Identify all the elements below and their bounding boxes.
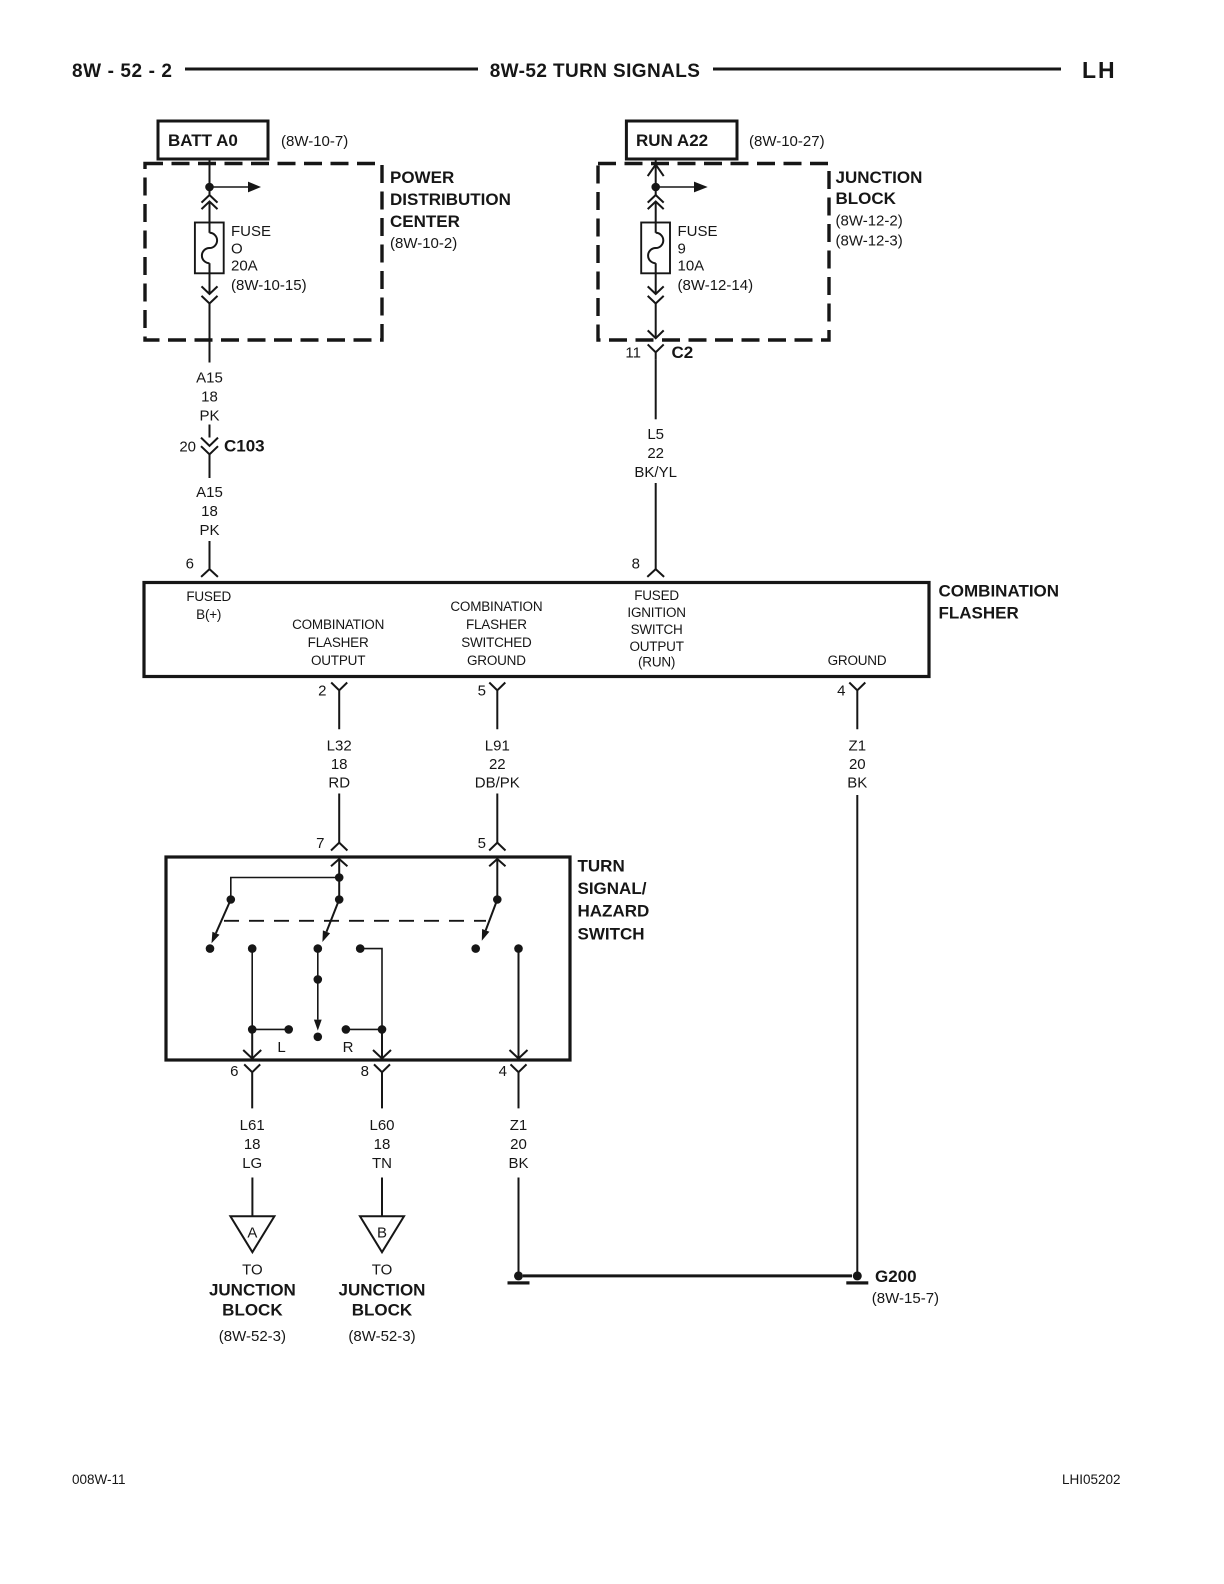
- svg-text:L61: L61: [240, 1117, 265, 1134]
- wire label Z1 20 BK (flasher ground): [847, 738, 867, 792]
- svg-text:BK: BK: [847, 775, 867, 792]
- svg-text:8W - 52 - 2: 8W - 52 - 2: [72, 61, 173, 82]
- svg-text:LHI05202: LHI05202: [1062, 1472, 1121, 1487]
- arrow down at JB border exit: [648, 330, 664, 338]
- svg-text:SWITCHED: SWITCHED: [461, 635, 532, 650]
- svg-text:A15: A15: [196, 484, 223, 501]
- svg-text:JUNCTION: JUNCTION: [339, 1281, 426, 1300]
- svg-text:PK: PK: [199, 522, 219, 539]
- svg-text:LH: LH: [1082, 57, 1117, 83]
- svg-text:JUNCTION: JUNCTION: [836, 168, 923, 187]
- svg-text:FLASHER: FLASHER: [939, 604, 1019, 623]
- svg-text:Z1: Z1: [510, 1117, 528, 1134]
- wire to JB border: [655, 304, 657, 339]
- svg-text:BATT A0: BATT A0: [168, 131, 238, 150]
- svg-text:4: 4: [837, 683, 845, 700]
- wire to off-page connector A: [251, 1178, 253, 1217]
- power distribution center dashed box: [145, 164, 382, 341]
- svg-text:8: 8: [361, 1063, 369, 1080]
- feed box RUN A22: [626, 121, 737, 159]
- svg-text:(8W-12-3): (8W-12-3): [836, 233, 903, 250]
- label TO JUNCTION BLOCK (8W-52-3) right: [339, 1262, 426, 1346]
- svg-text:A: A: [247, 1225, 257, 1242]
- svg-text:18: 18: [331, 756, 348, 773]
- contact dot row: left open contact: [206, 944, 215, 953]
- header rule right: [713, 68, 1061, 71]
- svg-text:OUTPUT: OUTPUT: [629, 639, 683, 654]
- svg-text:22: 22: [647, 445, 664, 462]
- wire RUN A22 down into JB: [655, 159, 657, 195]
- svg-text:10A: 10A: [678, 258, 705, 275]
- svg-text:(8W-10-27): (8W-10-27): [749, 133, 825, 150]
- svg-text:(RUN): (RUN): [638, 655, 675, 670]
- svg-text:L: L: [277, 1039, 285, 1056]
- wire label L32 18 RD: [327, 738, 352, 792]
- label JUNCTION BLOCK: [836, 168, 923, 250]
- contact dot: ground contact: [514, 944, 523, 953]
- svg-text:BK: BK: [508, 1155, 528, 1172]
- left pivot dot: [227, 895, 236, 904]
- wire pin 7 to node: [338, 859, 340, 878]
- wire label A15 18 PK (lower): [196, 484, 223, 539]
- svg-text:TO: TO: [372, 1262, 393, 1279]
- svg-text:FUSE: FUSE: [678, 223, 718, 240]
- L jumper end dot: [284, 1025, 293, 1034]
- connector C2 pin 11: [625, 343, 693, 362]
- svg-text:8: 8: [632, 556, 640, 573]
- contact dot: left turn contact: [248, 944, 257, 953]
- wire to off-page connector B: [381, 1178, 383, 1217]
- flasher terminal label FUSED B(+): [186, 589, 231, 622]
- svg-text:PK: PK: [199, 408, 219, 425]
- fuse label FUSE 9 10A (8W-12-14): [678, 223, 754, 294]
- contact dot: right turn contact: [356, 944, 365, 953]
- hazard junction dot: [314, 975, 323, 984]
- wire node to middle pivot: [338, 878, 340, 900]
- svg-text:5: 5: [478, 835, 486, 852]
- switch pin 5 connector: [478, 835, 506, 852]
- svg-text:(8W-10-2): (8W-10-2): [390, 235, 457, 252]
- connector C103 pin 20: [179, 437, 264, 456]
- wire label A15 18 PK (upper): [196, 370, 223, 425]
- svg-text:C2: C2: [672, 343, 694, 362]
- svg-text:RD: RD: [328, 775, 350, 792]
- wire flasher pin5 to switch pin5: [496, 794, 498, 843]
- svg-text:BLOCK: BLOCK: [836, 189, 897, 208]
- off-page connector A: [230, 1216, 274, 1252]
- svg-text:IGNITION: IGNITION: [627, 605, 685, 620]
- header rule left: [185, 68, 478, 71]
- off-page connector B: [360, 1216, 404, 1252]
- svg-text:22: 22: [489, 756, 506, 773]
- ground splice dot (switch side): [514, 1271, 523, 1280]
- wire label L5 22 BK/YL: [634, 426, 677, 481]
- svg-text:A15: A15: [196, 370, 223, 387]
- wire flasher pin4 to ground G200: [856, 795, 858, 1272]
- svg-text:C103: C103: [224, 437, 265, 456]
- svg-text:(8W-52-3): (8W-52-3): [219, 1328, 286, 1345]
- svg-text:CENTER: CENTER: [390, 212, 460, 231]
- svg-text:B(+): B(+): [196, 607, 221, 622]
- svg-text:11: 11: [625, 345, 641, 362]
- wire above C103: [209, 425, 211, 438]
- wire switch ground to G200: [518, 1178, 520, 1273]
- connector double chevron above fuse (PDC): [202, 195, 218, 209]
- svg-text:BK/YL: BK/YL: [634, 464, 677, 481]
- wire ground contact to pin 4 with arrow: [510, 949, 528, 1059]
- junction dot L output: [248, 1025, 257, 1034]
- wire R jumper: [346, 1028, 382, 1030]
- wire label L91 22 DB/PK: [475, 738, 520, 792]
- svg-text:GROUND: GROUND: [828, 653, 887, 668]
- svg-text:B: B: [377, 1225, 387, 1242]
- label POWER DISTRIBUTION CENTER: [390, 168, 511, 252]
- pin 6 connector at combination flasher: [186, 556, 218, 577]
- connector double chevron below fuse (JB): [648, 286, 664, 303]
- switch pin 6 connector: [230, 1063, 260, 1108]
- hazard target contact dot: [314, 1033, 323, 1042]
- wire left contact down: [251, 949, 253, 1030]
- flasher pin 2 connector: [318, 683, 347, 730]
- svg-text:5: 5: [478, 683, 486, 700]
- fuse 9 10A (JB): [641, 223, 670, 274]
- wire BATT A0 down into PDC: [209, 159, 211, 195]
- svg-text:FLASHER: FLASHER: [308, 635, 369, 650]
- svg-text:COMBINATION: COMBINATION: [939, 582, 1060, 601]
- connector double chevron above fuse (JB): [648, 195, 664, 209]
- left switch arm: [212, 900, 231, 944]
- wire out of PDC: [209, 304, 211, 363]
- hazard wiper arrow: [314, 979, 322, 1030]
- svg-text:FUSED: FUSED: [634, 588, 679, 603]
- wire below C103: [209, 454, 211, 478]
- wire fuse to chevron (JB): [655, 263, 657, 294]
- middle switch arm: [322, 900, 339, 943]
- fuse label FUSE O 20A (8W-10-15): [231, 223, 307, 294]
- svg-text:L91: L91: [485, 738, 510, 755]
- connector double chevron below fuse (PDC): [202, 286, 218, 303]
- svg-text:7: 7: [316, 835, 324, 852]
- ground bar (switch side): [508, 1281, 530, 1284]
- svg-text:(8W-12-2): (8W-12-2): [836, 213, 903, 230]
- wire to flasher pin 8: [655, 483, 657, 569]
- svg-text:L5: L5: [647, 426, 664, 443]
- arrow up into RUN A22 at JB border: [648, 165, 664, 177]
- wire hazard contact down: [317, 949, 319, 980]
- ground bus wire: [523, 1274, 852, 1277]
- svg-text:6: 6: [230, 1063, 238, 1080]
- svg-text:TURN: TURN: [578, 857, 625, 876]
- svg-text:L32: L32: [327, 738, 352, 755]
- svg-text:18: 18: [244, 1136, 261, 1153]
- flasher terminal label COMBINATION FLASHER SWITCHED GROUND: [450, 599, 542, 668]
- svg-text:6: 6: [186, 556, 194, 573]
- svg-text:DISTRIBUTION: DISTRIBUTION: [390, 190, 511, 209]
- pin 7 inner chevron: [331, 859, 347, 866]
- label COMBINATION FLASHER: [939, 582, 1060, 623]
- wire R output to pin 8 with arrow: [373, 1029, 391, 1058]
- svg-text:G200: G200: [875, 1267, 917, 1286]
- svg-text:20: 20: [849, 756, 866, 773]
- wire fuse to chevron: [209, 263, 211, 294]
- svg-text:SWITCH: SWITCH: [631, 622, 683, 637]
- svg-text:20: 20: [179, 439, 196, 456]
- wire pin 5 to right pivot: [496, 859, 498, 900]
- wire to flasher pin 6: [209, 541, 211, 569]
- node splice dot in JB: [651, 183, 660, 192]
- switch pin 7 connector: [316, 835, 347, 852]
- wire flasher pin2 to switch pin7: [338, 794, 340, 843]
- wire chevron to fuse (JB): [655, 202, 657, 233]
- mechanical linkage dashed line: [224, 920, 486, 922]
- svg-text:O: O: [231, 240, 243, 257]
- combination flasher box U1: [144, 583, 929, 677]
- svg-text:TN: TN: [372, 1155, 392, 1172]
- svg-text:18: 18: [374, 1136, 391, 1153]
- svg-text:TO: TO: [242, 1262, 263, 1279]
- switch pin 4 connector: [499, 1063, 527, 1108]
- svg-text:L60: L60: [369, 1117, 394, 1134]
- svg-text:POWER: POWER: [390, 168, 454, 187]
- svg-text:8W-52 TURN SIGNALS: 8W-52 TURN SIGNALS: [490, 61, 701, 82]
- svg-text:LG: LG: [242, 1155, 262, 1172]
- label TO JUNCTION BLOCK (8W-52-3) left: [209, 1262, 296, 1346]
- svg-text:(8W-52-3): (8W-52-3): [348, 1328, 415, 1345]
- svg-text:SWITCH: SWITCH: [578, 925, 645, 944]
- wire label L60 18 TN: [369, 1117, 394, 1172]
- branch arrow to other circuits (JB): [659, 182, 708, 193]
- svg-text:FUSE: FUSE: [231, 223, 271, 240]
- R jumper start dot: [342, 1025, 351, 1034]
- svg-text:(8W-12-14): (8W-12-14): [678, 277, 754, 294]
- svg-text:(8W-10-15): (8W-10-15): [231, 277, 307, 294]
- svg-text:DB/PK: DB/PK: [475, 775, 520, 792]
- pin 5 inner chevron: [489, 859, 505, 866]
- wire L output to pin 6 with arrow: [243, 1029, 261, 1058]
- flasher terminal label FUSED IGNITION SWITCH OUTPUT (RUN): [627, 588, 685, 670]
- wire label Z1 20 BK (switch ground): [508, 1117, 528, 1172]
- contact dot: right open contact: [471, 944, 480, 953]
- wire C2 down: [655, 360, 657, 420]
- svg-text:BLOCK: BLOCK: [222, 1301, 283, 1320]
- svg-text:GROUND: GROUND: [467, 653, 526, 668]
- svg-text:BLOCK: BLOCK: [352, 1301, 413, 1320]
- label TURN SIGNAL/ HAZARD SWITCH: [578, 857, 650, 944]
- right switch arm: [482, 900, 498, 941]
- right pivot dot: [493, 895, 502, 904]
- svg-text:OUTPUT: OUTPUT: [311, 653, 365, 668]
- flasher terminal label COMBINATION FLASHER OUTPUT: [292, 617, 384, 668]
- ground splice dot G200: [853, 1271, 862, 1280]
- wire label L61 18 LG: [240, 1117, 265, 1172]
- svg-text:RUN A22: RUN A22: [636, 131, 708, 150]
- contact dot: middle hazard contact: [314, 944, 323, 953]
- branch arrow to other circuits (PDC): [213, 182, 261, 193]
- ground bar G200: [846, 1281, 868, 1284]
- svg-text:9: 9: [678, 240, 686, 257]
- junction block dashed box: [598, 164, 829, 341]
- middle pivot dot: [335, 895, 344, 904]
- svg-text:2: 2: [318, 683, 326, 700]
- wire right turn contact to pin 8: [360, 949, 382, 1030]
- svg-text:FLASHER: FLASHER: [466, 617, 527, 632]
- R junction dot: [378, 1025, 387, 1034]
- turn signal hazard switch box S1: [166, 857, 570, 1060]
- feed box BATT A0: [158, 121, 268, 159]
- svg-text:008W-11: 008W-11: [72, 1472, 126, 1487]
- svg-text:18: 18: [201, 503, 218, 520]
- node splice dot in PDC: [205, 183, 214, 192]
- svg-text:COMBINATION: COMBINATION: [450, 599, 542, 614]
- svg-text:COMBINATION: COMBINATION: [292, 617, 384, 632]
- fuse O 20A (PDC): [195, 223, 224, 274]
- flasher pin 4 connector: [837, 683, 865, 730]
- svg-text:20A: 20A: [231, 258, 258, 275]
- svg-text:18: 18: [201, 389, 218, 406]
- svg-text:(8W-15-7): (8W-15-7): [872, 1290, 939, 1307]
- branch wire to left pivot: [231, 878, 339, 900]
- flasher pin 5 connector: [478, 683, 506, 730]
- svg-text:(8W-10-7): (8W-10-7): [281, 133, 348, 150]
- svg-text:SIGNAL/: SIGNAL/: [578, 879, 647, 898]
- svg-text:R: R: [343, 1039, 354, 1056]
- svg-text:JUNCTION: JUNCTION: [209, 1281, 296, 1300]
- svg-text:4: 4: [499, 1063, 507, 1080]
- wire L jumper: [252, 1028, 289, 1030]
- pin 8 connector at combination flasher: [632, 556, 664, 577]
- svg-text:FUSED: FUSED: [186, 589, 231, 604]
- svg-text:HAZARD: HAZARD: [578, 902, 650, 921]
- node dot switch feed: [335, 873, 344, 882]
- svg-text:20: 20: [510, 1136, 527, 1153]
- switch pin 8 connector: [361, 1063, 390, 1108]
- wire chevron to fuse: [209, 202, 211, 233]
- svg-text:Z1: Z1: [849, 738, 867, 755]
